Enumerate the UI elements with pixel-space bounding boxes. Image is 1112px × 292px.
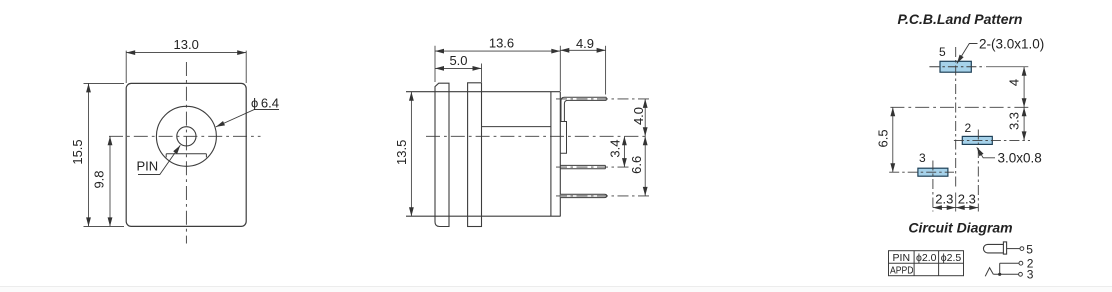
body right edge <box>550 92 552 217</box>
dim 13.0 dimension line <box>126 52 246 54</box>
svg-text:PIN: PIN <box>893 252 911 264</box>
phi6.4 leader <box>216 110 279 127</box>
svg-text:3: 3 <box>1027 268 1034 282</box>
SIDE VIEW <box>406 46 652 227</box>
top pin (L-shaped) <box>561 97 606 121</box>
back plate right edge <box>559 92 561 217</box>
extension line for 2.3 dims at pad5 centerline <box>955 193 957 212</box>
svg-text:13.0: 13.0 <box>174 37 199 52</box>
svg-text:3.4: 3.4 <box>608 140 623 158</box>
table row divider <box>889 262 964 264</box>
terminal 3 lead <box>993 273 1018 275</box>
FRONT VIEW <box>84 51 280 244</box>
svg-text:5.0: 5.0 <box>449 53 467 68</box>
svg-text:ϕ2.5: ϕ2.5 <box>941 252 962 264</box>
pad 3 vertical centerline <box>932 161 934 212</box>
switch spring contact <box>985 268 993 277</box>
dim 4.9 extension line <box>605 46 607 95</box>
mounting flange 2 <box>468 83 482 227</box>
svg-text:3.3: 3.3 <box>1007 112 1022 130</box>
dim 5.0 extension line <box>481 64 483 83</box>
chain arrows at middle of 2.3 dims <box>947 205 965 210</box>
dim 13.5 dimension line <box>410 92 412 217</box>
terminal 5 circle <box>1020 247 1024 251</box>
pad 2 horizontal centerline <box>954 139 1030 141</box>
dim 13.0 extension lines <box>126 51 246 83</box>
terminal 2 circle <box>1019 261 1023 265</box>
svg-text:3.0x0.8: 3.0x0.8 <box>998 150 1042 165</box>
datum centerline <box>890 106 1028 108</box>
svg-text:APPD: APPD <box>890 264 914 276</box>
junction dot <box>998 273 1001 276</box>
dim 9.8 dimension line <box>109 136 111 226</box>
terminal 2 lead <box>1000 262 1019 264</box>
pad 5 horizontal centerline <box>929 66 985 68</box>
svg-text:13.6: 13.6 <box>489 36 514 51</box>
body bottom edge <box>406 215 561 217</box>
dim 13.6 extension lines <box>435 46 560 91</box>
dim 4.9 dimension line <box>560 49 605 51</box>
svg-text:P.C.B.Land Pattern: P.C.B.Land Pattern <box>898 11 1023 27</box>
pad 3 (3.0x0.8) <box>918 168 948 176</box>
pad 2 (3.0x0.8) <box>962 136 992 144</box>
top pin centerline <box>556 98 652 100</box>
svg-text:6.6: 6.6 <box>629 156 644 174</box>
svg-text:9.8: 9.8 <box>92 170 107 188</box>
svg-text:15.5: 15.5 <box>70 139 85 164</box>
spec table outline <box>889 251 964 276</box>
barrel circle (6.4 dia) <box>156 106 216 166</box>
chain arrows at barrel centerline on 4.0/6.6 line <box>643 127 648 145</box>
svg-text:ϕ 6.4: ϕ 6.4 <box>251 96 279 111</box>
leader 3.0x0.8 <box>977 147 995 158</box>
svg-text:3: 3 <box>919 151 926 165</box>
dim 2.3/2.3 dimension line <box>933 207 978 209</box>
jack center pin bullet <box>983 244 1003 253</box>
extension from pad5 centerline to dim 4 <box>986 66 1028 68</box>
middle pin centerline <box>556 166 629 168</box>
chain arrows at datum on 4/3.3 line <box>1022 98 1027 116</box>
pad 3 horizontal centerline <box>889 171 954 173</box>
svg-text:6.5: 6.5 <box>875 129 890 147</box>
dim 15.5 extension lines <box>84 83 125 226</box>
dim 5.0 dimension line <box>435 67 482 69</box>
svg-text:4.0: 4.0 <box>631 107 646 125</box>
table column dividers <box>914 251 939 276</box>
middle pin <box>560 165 605 168</box>
dim 4.0/6.6 dimension line <box>644 99 646 196</box>
svg-text:2.3: 2.3 <box>935 192 953 207</box>
front view vertical centerline <box>185 62 187 244</box>
svg-text:5: 5 <box>1026 242 1033 256</box>
svg-text:13.5: 13.5 <box>394 140 409 165</box>
front view body outline <box>126 83 246 226</box>
svg-text:4.9: 4.9 <box>576 36 594 51</box>
pad 5 vertical centerline <box>955 47 957 189</box>
body top edge <box>406 91 560 93</box>
jack bullet flange bar <box>1003 242 1006 254</box>
side view barrel centerline <box>426 135 649 137</box>
pad 5 (3.0x1.0) <box>940 61 971 72</box>
svg-text:Circuit Diagram: Circuit Diagram <box>908 219 1012 235</box>
terminal 3 circle <box>1019 272 1023 276</box>
front view horizontal centerline <box>109 135 261 137</box>
dim 15.5 dimension line <box>88 83 90 226</box>
svg-text:2: 2 <box>965 121 972 135</box>
PIN leader <box>138 145 180 174</box>
svg-text:5: 5 <box>939 45 946 59</box>
mounting flange 1 <box>435 83 449 226</box>
bottom separator line <box>0 286 1112 288</box>
dim 6.5 dimension line <box>892 107 894 172</box>
dim 4 / 3.3 dimension line <box>1023 67 1025 141</box>
terminal tab <box>560 122 566 154</box>
dim 13.6 dimension line <box>435 50 560 52</box>
bottom pin <box>560 194 607 197</box>
svg-text:2.3: 2.3 <box>958 192 976 207</box>
svg-text:2-(3.0x1.0): 2-(3.0x1.0) <box>979 36 1044 51</box>
svg-text:PIN: PIN <box>137 159 159 174</box>
pad 2 vertical centerline extended to 2.3 dim <box>977 130 979 212</box>
wire from terminal 2 down to pin 3 line <box>999 263 1001 274</box>
center pin circle <box>177 127 196 146</box>
flat chord inside barrel <box>166 154 206 158</box>
leader 2-(3.0x1.0) <box>957 44 978 64</box>
bottom pin centerline <box>556 195 652 197</box>
terminal 5 lead <box>1007 248 1020 250</box>
svg-text:4: 4 <box>1007 79 1022 86</box>
dim 3.4 dimension line <box>623 136 625 167</box>
svg-text:ϕ2.0: ϕ2.0 <box>916 252 937 264</box>
internal body line <box>482 126 551 128</box>
